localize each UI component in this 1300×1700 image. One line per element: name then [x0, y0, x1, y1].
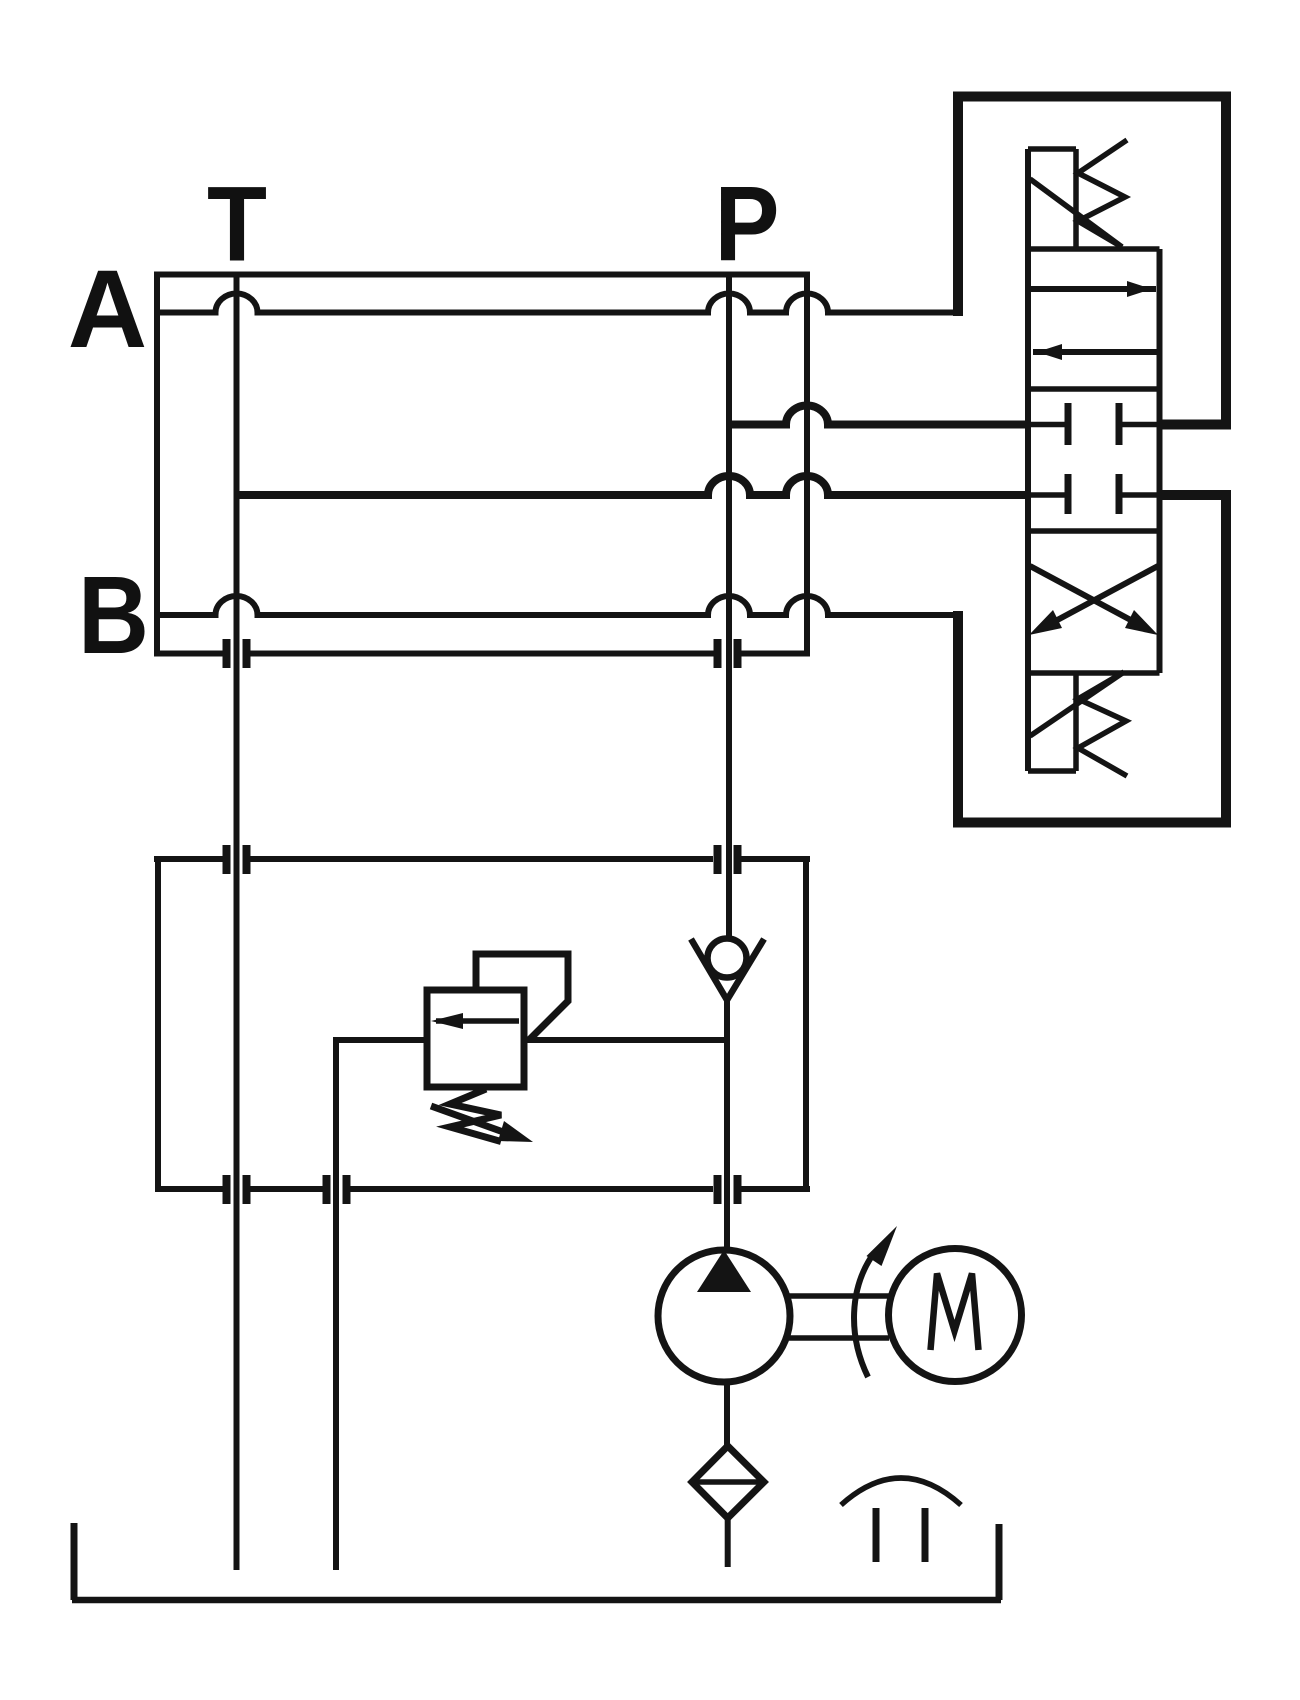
check valve seat V	[691, 939, 764, 1000]
valve box3 crossed arrow 2	[1048, 566, 1158, 625]
valve box2 port stub upper-right	[1119, 422, 1160, 428]
motor circle	[889, 1249, 1022, 1382]
upper manifold block right edge	[804, 272, 810, 657]
wire: P line below check valve	[724, 1000, 730, 1252]
svg-text:B: B	[78, 554, 149, 677]
wire: T line vertical	[234, 274, 240, 1570]
wire: P port connection to valve with jump over block edge	[729, 406, 1031, 425]
solenoid S1 diagonal	[1030, 179, 1122, 247]
tank bottom line	[72, 1597, 1001, 1604]
relief valve pilot line	[476, 954, 568, 1040]
valve U1 right edge	[1157, 249, 1163, 673]
valve box2 port stub lower-right	[1119, 492, 1160, 498]
valve box1 arrow B to T (left)	[1033, 349, 1158, 355]
breather right tick	[922, 1508, 929, 1562]
spring bottom (valve)	[1078, 672, 1127, 776]
tank right wall	[996, 1524, 1003, 1600]
solenoid S2 diagonal	[1030, 672, 1124, 736]
solenoid S1 box top edge	[1028, 146, 1076, 152]
svg-text:A: A	[68, 248, 147, 371]
wire: port A line with jumps over T, P, block edge	[157, 294, 962, 313]
break tick drain-right on lower block bottom edge	[343, 1175, 351, 1204]
break tick drain-left on lower block bottom edge	[323, 1175, 331, 1204]
valve box2 blocked port bar lower-right	[1116, 474, 1123, 514]
relief valve inlet line from P	[524, 1037, 729, 1043]
wire: relief drain line to tank	[333, 1037, 339, 1570]
filter element line	[692, 1479, 764, 1485]
relief valve internal flow arrow (left)	[436, 1018, 519, 1024]
wire: pump suction line	[724, 1382, 730, 1448]
tank left wall	[71, 1523, 78, 1600]
spring top (valve)	[1078, 140, 1127, 247]
svg-text:P: P	[715, 164, 780, 284]
upper manifold block bottom edge	[154, 651, 810, 657]
break tick T-left on upper block bottom edge	[223, 639, 231, 668]
valve U1 top boundary	[1028, 246, 1160, 252]
break tick P-right on lower block bottom edge	[734, 1175, 742, 1204]
break tick T-left on lower block top edge	[223, 845, 231, 874]
valve box1 arrow P to A (right)	[1031, 286, 1156, 292]
lower manifold block right edge	[803, 856, 809, 1192]
breather left tick	[873, 1508, 880, 1562]
valve box2 blocked port bar lower-left	[1065, 474, 1072, 514]
relief valve spring	[450, 1089, 501, 1142]
valve box2 port stub lower-left	[1028, 492, 1068, 498]
valve box2 blocked port bar upper-right	[1116, 403, 1123, 445]
valve U1 box2/box3 boundary	[1028, 528, 1160, 534]
valve box2 blocked port bar upper-left	[1065, 403, 1072, 445]
filter diamond	[692, 1446, 764, 1518]
rotation arrow head	[867, 1226, 898, 1266]
wire: port B line with jumps over T, P, block edge	[157, 596, 962, 615]
wire: B route loop to valve (down and under)	[958, 495, 1226, 823]
solenoid S2 box right edge	[1073, 673, 1079, 771]
motor letter M	[931, 1274, 979, 1351]
break tick P-right on lower block top edge	[734, 845, 742, 874]
coupling shaft lower line	[789, 1335, 889, 1341]
solenoid S2 box bottom edge	[1028, 768, 1076, 774]
wire: filter to tank	[725, 1516, 731, 1567]
valve box2 port stub upper-left	[1028, 422, 1068, 428]
pump circle	[658, 1250, 790, 1382]
upper manifold block left edge	[154, 272, 160, 657]
break tick P-left on upper block bottom edge	[714, 639, 722, 668]
wire: P line vertical upper	[726, 277, 732, 937]
check valve circle	[708, 939, 747, 978]
pump flow triangle	[697, 1250, 751, 1292]
lower manifold block left edge	[155, 856, 161, 1192]
solenoid S1 box right edge	[1073, 149, 1079, 249]
breather arc	[841, 1478, 961, 1505]
lower manifold block bottom edge	[155, 1186, 810, 1192]
break tick T-right on lower block bottom edge	[243, 1175, 251, 1204]
svg-text:T: T	[207, 164, 267, 284]
rotation arrow arc	[854, 1253, 874, 1377]
valve box3 crossed arrow 1	[1030, 566, 1140, 625]
valve U1 box1/box2 boundary	[1028, 386, 1160, 392]
lower manifold block top edge	[154, 856, 810, 862]
break tick T-left on lower block bottom edge	[223, 1175, 231, 1204]
break tick P-left on lower block bottom edge	[714, 1175, 722, 1204]
wire: T port connection to valve with jumps over P, block edge	[237, 476, 1032, 495]
coupling shaft upper line	[789, 1293, 889, 1299]
break tick T-right on upper block bottom edge	[243, 639, 251, 668]
relief valve RV1 body	[427, 990, 524, 1087]
break tick T-right on lower block top edge	[243, 845, 251, 874]
break tick P-left on lower block top edge	[714, 845, 722, 874]
valve U1 left edge	[1025, 149, 1031, 771]
relief valve outlet line to drain	[336, 1037, 427, 1043]
valve U1 box3 bottom boundary	[1028, 670, 1160, 676]
break tick P-right on upper block bottom edge	[734, 639, 742, 668]
wire: A route loop to valve (up and over)	[958, 97, 1226, 425]
upper manifold block top edge	[154, 272, 810, 278]
